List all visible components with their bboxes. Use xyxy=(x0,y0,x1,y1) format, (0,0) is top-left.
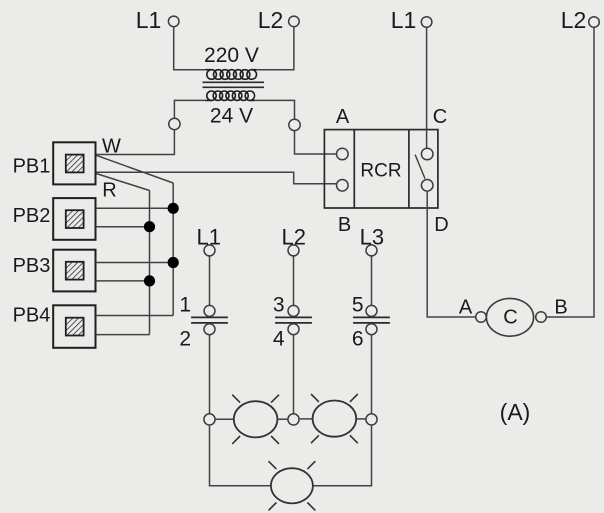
wire relay D down to motor terminal A xyxy=(427,191,476,317)
wire PB2 bottom to bus 1 xyxy=(96,226,150,228)
wire contact 4 down to lamp node xyxy=(293,335,295,414)
svg-text:PB3: PB3 xyxy=(13,255,51,277)
terminal L2 top-right xyxy=(589,17,600,28)
contactor pole 3-4 xyxy=(275,305,312,334)
motor terminal B pin xyxy=(536,312,547,323)
lamp 2 xyxy=(311,394,358,443)
svg-text:1: 1 xyxy=(179,294,191,317)
svg-text:L1: L1 xyxy=(136,7,162,33)
lamp 1 xyxy=(232,395,279,444)
svg-text:24 V: 24 V xyxy=(210,105,253,128)
svg-text:A: A xyxy=(459,296,473,318)
wire contact 2 down to lamp node xyxy=(209,335,211,414)
svg-text:R: R xyxy=(102,180,116,202)
wire right terminal down to lamp 3 xyxy=(313,425,372,486)
relay coil terminal A pin xyxy=(337,148,349,160)
motor terminal A pin xyxy=(476,312,487,323)
relay coil terminal B pin xyxy=(337,180,349,192)
svg-text:D: D xyxy=(434,214,448,236)
wire PB4 bottom to bus 1 xyxy=(96,334,150,336)
wire L1 to primary coil xyxy=(174,27,206,70)
svg-text:PB2: PB2 xyxy=(13,205,51,227)
wire left terminal down to lamp 3 xyxy=(210,425,272,486)
transformer T1 primary coil xyxy=(205,70,256,80)
wire secondary right terminal to relay coil terminal A xyxy=(295,131,337,154)
lamp 3 xyxy=(269,461,316,510)
svg-text:6: 6 xyxy=(352,328,364,351)
wire PB4 top to bus 2 xyxy=(96,315,174,317)
pushbutton PB3 xyxy=(53,250,95,292)
svg-text:RCR: RCR xyxy=(360,161,401,182)
wire secondary left xyxy=(174,100,206,118)
wire PB2 top to bus 2 xyxy=(96,207,174,209)
pushbutton PB1 xyxy=(53,142,95,184)
svg-text:PB4: PB4 xyxy=(13,305,51,327)
relay contact terminal D pin xyxy=(421,180,433,192)
wire L2 down to motor terminal B xyxy=(546,27,594,317)
pushbutton PB2 xyxy=(53,198,95,240)
svg-text:4: 4 xyxy=(273,328,285,351)
svg-text:L1: L1 xyxy=(391,7,417,33)
svg-text:C: C xyxy=(433,106,447,128)
wire diagonal PB1 top to bus 2 xyxy=(96,155,173,183)
svg-text:(A): (A) xyxy=(500,399,531,425)
wire W: secondary left terminal to PB1 top xyxy=(96,130,175,155)
lamp node right terminal xyxy=(366,414,377,425)
motor C xyxy=(486,298,533,336)
svg-text:2: 2 xyxy=(179,328,191,351)
terminal L2 top-left xyxy=(289,16,300,27)
lamp node left terminal xyxy=(204,414,215,425)
wire L2 to primary coil xyxy=(256,27,294,70)
pushbutton PB4 xyxy=(53,305,95,348)
wire L1 to relay contact C xyxy=(426,27,428,148)
svg-text:L2: L2 xyxy=(258,7,284,33)
wire diagonal PB1 bottom to bus 1 xyxy=(96,173,150,190)
terminal L2 mid xyxy=(288,245,299,256)
svg-text:5: 5 xyxy=(352,294,364,317)
wire left terminal to lamp 1 xyxy=(215,418,233,420)
junction dot bus2/PB2 xyxy=(168,203,179,214)
relay contact terminal C pin xyxy=(421,148,433,160)
relay RCR body xyxy=(324,130,438,208)
terminal secondary right xyxy=(289,119,300,130)
wire PB1 bottom to relay coil terminal B xyxy=(96,172,337,184)
terminal L3 mid xyxy=(366,245,377,256)
svg-text:B: B xyxy=(338,214,351,236)
contactor pole 5-6 xyxy=(353,305,390,334)
svg-text:L2: L2 xyxy=(561,7,587,33)
wire lamp 2 to right terminal xyxy=(356,418,366,420)
contactor pole 1-2 xyxy=(191,305,228,334)
svg-text:3: 3 xyxy=(273,294,285,317)
wire contact 6 down to lamp node xyxy=(371,335,373,414)
terminal L1 top-left xyxy=(168,16,179,27)
terminal secondary left xyxy=(169,118,180,129)
wire bus 1 vertical xyxy=(149,191,151,335)
transformer T1 core xyxy=(203,82,265,87)
wire secondary right xyxy=(255,100,295,119)
svg-text:220 V: 220 V xyxy=(204,44,259,67)
wire PB3 bottom to bus 1 xyxy=(96,280,150,282)
svg-text:PB1: PB1 xyxy=(13,155,51,177)
transformer T1 secondary coil xyxy=(205,91,254,100)
wire L2 mid down to contact 3 xyxy=(293,256,295,306)
junction dot bus2/PB3 xyxy=(168,257,179,268)
terminal L1 top-right xyxy=(421,17,432,28)
wire L3 mid down to contact 5 xyxy=(371,256,373,306)
wire L1 mid down to contact 1 xyxy=(209,256,211,306)
wire bus 2 vertical xyxy=(172,183,174,316)
terminal L1 mid xyxy=(204,245,215,256)
wire lamp 1 to mid terminal xyxy=(277,418,288,420)
wire PB3 top to bus 2 xyxy=(96,262,174,264)
wire mid terminal to lamp 2 xyxy=(299,418,313,420)
junction dot bus1/PB2 xyxy=(144,221,155,232)
junction dot bus1/PB3 xyxy=(144,275,155,286)
lamp node mid terminal xyxy=(288,414,299,425)
relay contact switch blade xyxy=(415,155,425,179)
svg-text:C: C xyxy=(503,307,517,329)
svg-text:A: A xyxy=(336,106,350,128)
svg-text:B: B xyxy=(554,296,567,318)
